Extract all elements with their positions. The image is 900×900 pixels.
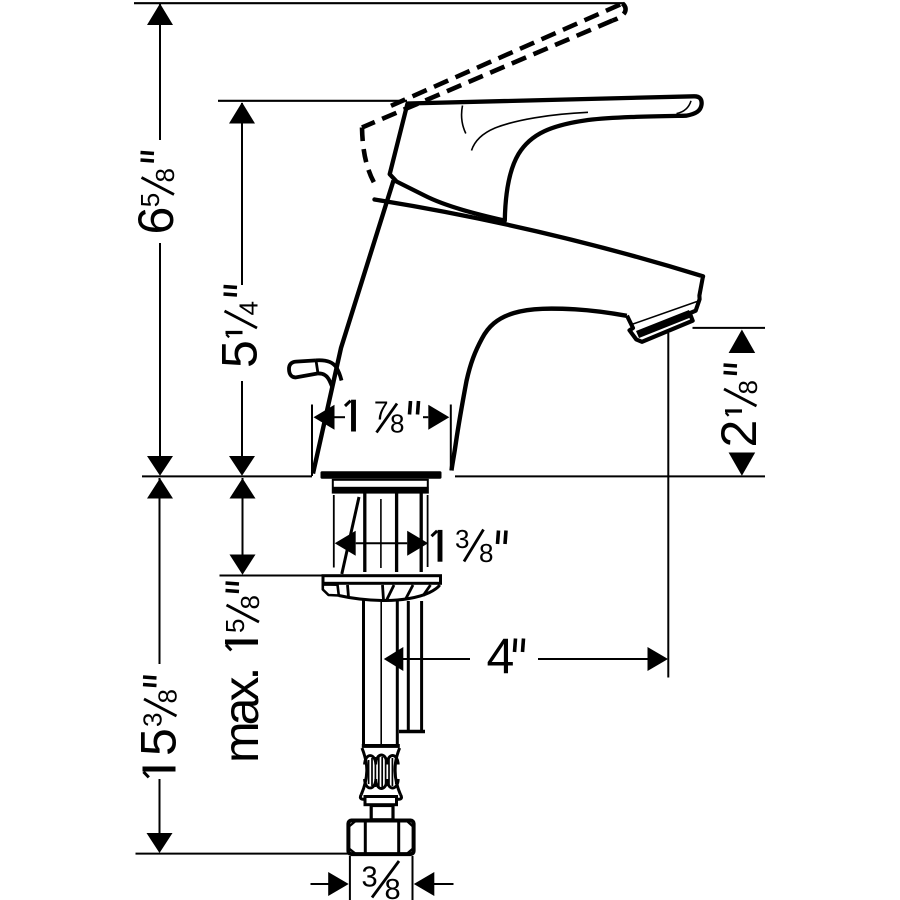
hex nut chamfers [349,822,413,854]
svg-text:3: 3 [362,862,378,894]
arrow 15 3/8 bottom (down) [147,833,173,853]
top reference line (handle raised height) [134,2,625,4]
faucet handle lever outline [390,96,702,220]
svg-text:5: 5 [135,193,165,207]
tube center line lower [380,602,382,744]
label 2 1/8" (rotated) [711,365,767,448]
extension line spout outlet vertical [667,333,669,678]
drain pull knob arm [316,360,342,387]
arrow max 1 5/8 bottom (down) [230,555,256,575]
deck line left segment [142,475,312,477]
svg-text:8: 8 [150,168,180,182]
arrow 2 1/8 top (up) [729,330,756,354]
svg-text:2: 2 [711,420,767,448]
dashed raised handle rear arc [362,128,375,184]
spout tip right edge and aerator cap outline [627,276,703,342]
dimension 4" line [402,658,470,660]
supply tube below washer right [396,600,399,745]
dashed raised handle tip arc [613,4,626,21]
reference line at washer bottom (max depth) [220,575,323,577]
spout underside curve [452,309,627,471]
svg-text:5: 5 [131,728,187,756]
braid lower flare [360,795,401,800]
label 3/8 [362,861,401,900]
washer hatch lines [348,585,431,600]
braided section left outline [361,748,367,795]
svg-text:4: 4 [487,629,515,685]
dimension line max 1 5/8 vertical [242,478,244,555]
thread indicator diagonal [342,497,359,574]
pull rod end cap [399,730,425,734]
svg-text:max.: max. [213,671,269,763]
shank outer wall right (thin) [427,495,429,567]
svg-text:8: 8 [153,689,183,703]
supply tube wall left [363,493,366,572]
svg-text:8: 8 [235,595,265,609]
nut upper piece [371,806,393,820]
braid top scallops [365,755,399,765]
handle tip inner detail [677,101,692,114]
hose ferrule band [362,744,400,748]
arrow 5 1/4 top (up) [229,102,255,123]
bottom reference line (hose end) [136,853,349,855]
mounting washer top bar [323,576,441,584]
dimension line 6 5/8 vertical [159,4,161,457]
label 4" [487,629,524,685]
label max. 1 5/8" (rotated) [213,583,269,763]
svg-text:3: 3 [455,524,469,554]
flange below deck [333,480,428,493]
supply tube wall right [395,493,398,572]
arrow 5 1/4 bottom (down) [229,456,255,476]
extension line 3/8 right [412,856,414,900]
mounting washer dish [339,585,440,601]
arrow 3/8 right (points left) [414,872,435,896]
label 6 5/8" (rotated) [128,153,184,235]
svg-text:4: 4 [234,301,264,315]
svg-text:8: 8 [479,538,493,568]
svg-text:5: 5 [212,340,268,368]
hex nut body [348,821,413,855]
braided section right outline [395,748,400,795]
deck line right segment [455,475,765,477]
svg-text:8: 8 [733,380,763,394]
aerator dark band [636,310,692,338]
hex nut facet line left [364,823,367,853]
body top line with pivot stub [375,200,704,277]
shank outer wall left (thin) [333,495,335,568]
extension line 1 7/8 left [311,405,313,477]
pull rod right wall [420,601,423,730]
arrow 6 5/8 bottom (down) [147,456,173,476]
svg-text:3: 3 [138,713,168,727]
hose collar [365,797,397,805]
handle crease detail short [462,106,466,134]
supply tube below washer left [362,600,365,745]
arrow 4" left [384,647,404,671]
label 5 1/4" (rotated) [212,287,268,369]
extension line 1 7/8 right [450,405,452,471]
braid vertical striping [369,757,396,787]
drain pull knob cap line [316,360,318,373]
svg-text:8: 8 [385,874,401,900]
label 1 3/8" [432,524,507,568]
arrow max 1 5/8 top (up at deck) [230,478,256,498]
arrow 2 1/8 bottom (down) [729,453,756,476]
flange dark band [332,487,429,493]
escutcheon bottom band [321,471,442,478]
pull rod upper segment [420,493,423,572]
arrow 4" right [648,647,669,671]
svg-text:5: 5 [220,619,250,633]
hex nut facet line right [397,823,400,853]
aerator thin line [632,302,698,325]
dimension 1 3/8 arrows [335,531,356,556]
reference line at aerator bottom (2 1/8) [693,327,766,329]
svg-text:8: 8 [390,409,404,439]
arrow 6 5/8 top (up) [147,4,173,26]
mounting washer left tab [323,585,339,596]
braid bottom scallops [365,779,399,789]
dashed raised handle line lower [362,21,613,128]
pull rod left wall [407,601,410,730]
dimension line 5 1/4 vertical [241,103,243,457]
arrow 3/8 left (points right) [328,872,349,896]
dimension 1 7/8 arrows and ticks [314,405,335,430]
label 15 3/8" (rotated) [131,677,187,777]
handle-top reference line [218,100,407,102]
tube center line upper [380,499,382,568]
handle crease detail long [472,112,589,150]
arrow 15 3/8 top (up at deck) [147,478,173,498]
drain pull knob [289,360,318,377]
extension line 3/8 left [349,856,351,900]
body left edge [313,181,394,474]
dashed raised handle line upper [391,4,623,106]
label 1 7/8" [345,396,419,439]
svg-text:6: 6 [128,207,184,235]
dimension line 15 3/8 vertical [159,478,161,834]
